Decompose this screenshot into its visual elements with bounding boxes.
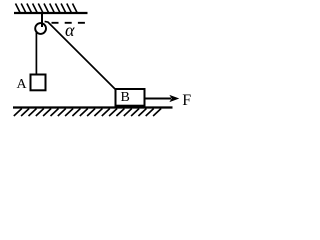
ceiling hatching (16, 4, 78, 13)
force arrow F shaft (146, 98, 172, 100)
ground line (13, 106, 173, 108)
svg-text:B: B (121, 90, 130, 105)
dashed horizontal reference line (52, 22, 86, 24)
pulley (35, 23, 46, 34)
svg-text:A: A (17, 77, 28, 92)
force arrow F head (169, 95, 179, 102)
wire rope to block A (35, 31, 37, 74)
svg-text:α: α (65, 20, 75, 40)
pulley hanger wire (41, 13, 43, 27)
ground hatching (14, 109, 161, 117)
svg-text:F: F (182, 92, 191, 109)
wire rope to block B (45, 21, 116, 89)
block B (116, 89, 145, 106)
block A (31, 75, 46, 91)
ceiling line (14, 12, 88, 14)
